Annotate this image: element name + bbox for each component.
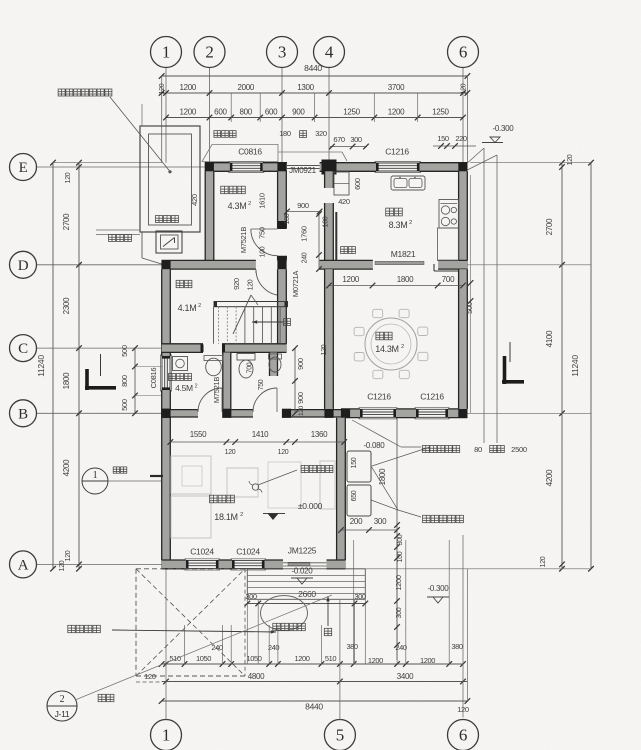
- svg-text:6: 6: [459, 726, 467, 745]
- svg-text:1200: 1200: [368, 656, 383, 665]
- svg-text:1: 1: [162, 726, 170, 745]
- svg-text:M0721A: M0721A: [291, 271, 300, 297]
- svg-text:300: 300: [350, 135, 362, 144]
- svg-text:J-11: J-11: [55, 709, 70, 719]
- svg-text:120: 120: [225, 449, 236, 456]
- svg-text:5: 5: [336, 726, 344, 745]
- svg-text:3700: 3700: [388, 83, 405, 92]
- svg-text:C1216: C1216: [420, 392, 444, 402]
- svg-text:2: 2: [205, 43, 213, 62]
- svg-text:4: 4: [325, 43, 334, 62]
- svg-text:510: 510: [325, 654, 337, 663]
- svg-text:120: 120: [540, 556, 547, 567]
- svg-text:JM1225: JM1225: [288, 546, 317, 556]
- svg-text:2: 2: [60, 694, 65, 705]
- svg-text:120: 120: [460, 83, 467, 94]
- svg-text:14.3M: 14.3M: [375, 344, 399, 354]
- svg-text:1: 1: [93, 470, 98, 481]
- svg-text:120: 120: [144, 672, 156, 681]
- svg-text:2000: 2000: [237, 83, 254, 92]
- svg-text:240: 240: [302, 252, 309, 263]
- svg-text:300: 300: [397, 534, 404, 545]
- svg-text:18.1M: 18.1M: [214, 512, 238, 522]
- svg-text:1360: 1360: [311, 430, 328, 439]
- svg-text:600: 600: [265, 108, 278, 117]
- svg-text:1550: 1550: [190, 430, 207, 439]
- svg-text:4200: 4200: [545, 469, 554, 486]
- svg-text:100: 100: [260, 246, 267, 257]
- svg-text:180: 180: [284, 213, 291, 224]
- svg-text:900: 900: [296, 358, 305, 370]
- svg-text:2500: 2500: [511, 445, 527, 454]
- svg-text:670: 670: [333, 135, 345, 144]
- svg-text:C1024: C1024: [236, 547, 260, 557]
- svg-text:6: 6: [459, 43, 467, 62]
- svg-text:510: 510: [169, 654, 181, 663]
- svg-text:8440: 8440: [304, 63, 322, 73]
- svg-text:1300: 1300: [297, 83, 314, 92]
- svg-text:380: 380: [346, 642, 358, 651]
- svg-text:150: 150: [351, 457, 358, 468]
- svg-text:500: 500: [120, 399, 129, 411]
- svg-text:-0.080: -0.080: [364, 441, 386, 450]
- svg-text:1200: 1200: [394, 575, 403, 591]
- svg-text:1200: 1200: [342, 275, 359, 284]
- svg-text:1800: 1800: [397, 275, 414, 284]
- svg-text:C1024: C1024: [190, 547, 214, 557]
- svg-text:2: 2: [401, 344, 404, 350]
- svg-text:1800: 1800: [378, 468, 387, 485]
- svg-text:1410: 1410: [252, 430, 269, 439]
- svg-text:JM0921: JM0921: [289, 166, 317, 175]
- svg-text:1250: 1250: [343, 108, 360, 117]
- svg-text:1050: 1050: [246, 654, 261, 663]
- svg-text:2: 2: [198, 303, 201, 309]
- svg-text:1250: 1250: [432, 108, 449, 117]
- svg-text:300: 300: [245, 592, 257, 601]
- svg-text:120: 120: [65, 172, 72, 183]
- svg-text:120: 120: [567, 154, 574, 165]
- svg-text:800: 800: [239, 108, 252, 117]
- svg-text:1760: 1760: [300, 226, 309, 242]
- svg-text:4200: 4200: [62, 459, 71, 476]
- svg-text:750: 750: [258, 379, 265, 390]
- svg-text:420: 420: [190, 194, 199, 206]
- svg-text:100: 100: [397, 551, 404, 562]
- svg-text:700: 700: [247, 362, 254, 373]
- svg-text:M1821: M1821: [391, 249, 416, 259]
- svg-text:750: 750: [258, 227, 267, 239]
- svg-text:-0.020: -0.020: [292, 567, 314, 576]
- svg-text:650: 650: [351, 490, 358, 501]
- svg-text:900: 900: [292, 108, 305, 117]
- svg-text:150: 150: [437, 134, 449, 143]
- svg-text:300: 300: [374, 517, 387, 526]
- svg-text:2700: 2700: [62, 213, 71, 230]
- svg-text:1200: 1200: [294, 654, 309, 663]
- svg-text:900: 900: [296, 392, 305, 404]
- svg-text:M7521B: M7521B: [239, 227, 248, 253]
- svg-text:1050: 1050: [196, 654, 211, 663]
- svg-text:4.5M: 4.5M: [175, 383, 193, 393]
- svg-text:4.1M: 4.1M: [178, 303, 197, 313]
- svg-text:±0.000: ±0.000: [298, 501, 323, 511]
- svg-text:100: 100: [323, 216, 330, 227]
- svg-text:2: 2: [248, 201, 251, 207]
- svg-text:2: 2: [409, 220, 412, 226]
- svg-text:180: 180: [279, 129, 291, 138]
- svg-text:420: 420: [338, 197, 350, 206]
- svg-text:C1216: C1216: [367, 392, 391, 402]
- svg-text:500: 500: [120, 345, 129, 357]
- svg-text:320: 320: [315, 129, 327, 138]
- svg-text:A: A: [18, 557, 29, 573]
- svg-text:1200: 1200: [420, 656, 435, 665]
- svg-text:-0.300: -0.300: [493, 124, 515, 133]
- svg-text:M7521B: M7521B: [212, 377, 221, 403]
- svg-text:4800: 4800: [248, 672, 265, 681]
- svg-text:8440: 8440: [305, 702, 323, 712]
- svg-text:B: B: [18, 406, 28, 422]
- svg-text:2: 2: [240, 512, 243, 518]
- svg-text:1200: 1200: [179, 108, 196, 117]
- svg-text:900: 900: [297, 201, 309, 210]
- svg-text:2660: 2660: [298, 589, 316, 599]
- svg-text:11240: 11240: [570, 355, 580, 377]
- svg-text:120: 120: [321, 344, 328, 355]
- svg-text:1800: 1800: [62, 372, 71, 389]
- svg-text:D: D: [18, 258, 29, 274]
- svg-text:1200: 1200: [388, 108, 405, 117]
- svg-text:4100: 4100: [545, 330, 554, 347]
- svg-text:380: 380: [451, 642, 463, 651]
- svg-text:-0.300: -0.300: [428, 584, 450, 593]
- svg-text:C1216: C1216: [385, 147, 409, 157]
- svg-text:80: 80: [474, 445, 482, 454]
- svg-text:300: 300: [396, 607, 403, 618]
- svg-text:C0816: C0816: [238, 147, 262, 157]
- svg-text:120: 120: [278, 449, 289, 456]
- svg-text:220: 220: [455, 134, 467, 143]
- svg-text:11240: 11240: [36, 355, 46, 377]
- svg-text:E: E: [19, 160, 28, 176]
- svg-text:1: 1: [162, 43, 170, 62]
- svg-text:800: 800: [120, 375, 129, 387]
- svg-text:700: 700: [442, 275, 455, 284]
- svg-text:200: 200: [350, 517, 363, 526]
- svg-text:C0816: C0816: [149, 368, 158, 389]
- svg-text:1200: 1200: [179, 83, 196, 92]
- svg-text:120: 120: [298, 405, 305, 416]
- svg-text:1610: 1610: [258, 193, 267, 209]
- svg-text:300: 300: [354, 592, 366, 601]
- svg-text:120: 120: [59, 560, 66, 571]
- svg-text:920: 920: [232, 278, 241, 290]
- svg-text:4.3M: 4.3M: [228, 201, 247, 211]
- svg-text:120: 120: [159, 83, 166, 94]
- svg-text:600: 600: [214, 108, 227, 117]
- svg-text:3: 3: [278, 43, 286, 62]
- svg-text:2300: 2300: [62, 297, 71, 314]
- svg-text:8.3M: 8.3M: [389, 220, 408, 230]
- svg-text:2700: 2700: [545, 218, 554, 235]
- svg-text:C: C: [18, 341, 28, 357]
- svg-text:3400: 3400: [397, 672, 414, 681]
- svg-text:120: 120: [248, 279, 255, 290]
- svg-text:500: 500: [465, 302, 474, 314]
- svg-text:120: 120: [65, 550, 72, 561]
- svg-text:600: 600: [353, 178, 362, 190]
